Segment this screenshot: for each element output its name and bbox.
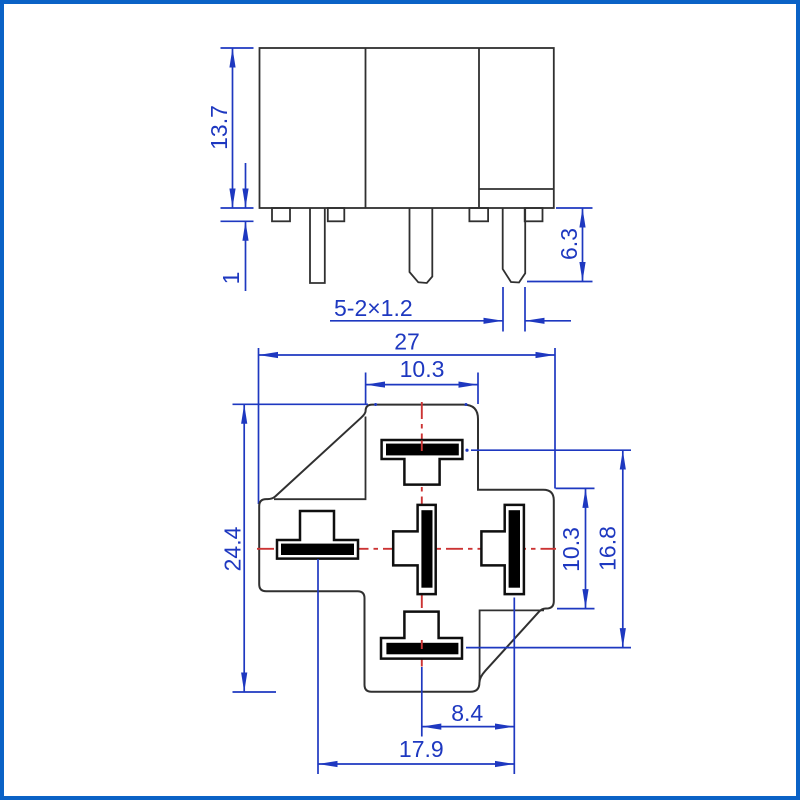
chamfer edge lines bottom-right	[480, 610, 544, 681]
dim 16.8 line	[622, 450, 624, 647]
dim 6.3 extension top	[556, 207, 593, 209]
mounting tab 4	[525, 208, 543, 221]
terminal blade bottom	[386, 643, 458, 655]
body divider line right	[478, 48, 480, 208]
terminal slots	[277, 440, 524, 659]
svg-text:10.3: 10.3	[558, 527, 584, 572]
svg-text:16.8: 16.8	[595, 526, 621, 571]
dim 1 extension bottom	[221, 220, 254, 222]
body step line	[479, 188, 554, 190]
dim 27 line	[259, 354, 556, 356]
dimension labels	[206, 105, 621, 762]
centerline vertical	[421, 402, 423, 667]
svg-text:6.3: 6.3	[556, 228, 582, 260]
dim 13.7 line	[232, 48, 234, 208]
centerline horizontal	[257, 548, 556, 550]
svg-text:13.7: 13.7	[206, 105, 232, 150]
dim 8.4 line	[422, 726, 515, 728]
dim 24.4 extension top	[233, 403, 369, 405]
centerline dash over bottom blade	[421, 640, 423, 649]
dim 24.4 extension bottom	[233, 691, 277, 693]
pin width extension left	[502, 287, 504, 332]
defpoint dot	[465, 449, 468, 452]
top view dimensions	[221, 48, 593, 504]
slot 87 (center) outline	[393, 505, 436, 594]
slot 85 (bottom) outline	[381, 612, 462, 659]
dim 10.3 top extension left	[365, 373, 367, 405]
dim 6.3 line	[582, 208, 584, 282]
svg-text:24.4: 24.4	[220, 526, 246, 571]
svg-text:1: 1	[218, 272, 244, 285]
slot 86 (left) outline	[277, 511, 358, 559]
dim 10.3 right extension bottom	[557, 608, 595, 610]
dim 10.3 top extension right	[477, 373, 479, 405]
dim 1 arrow upper	[245, 163, 247, 208]
dim 17.9 extension left	[317, 559, 319, 774]
chamfer edge lines top-left	[274, 417, 366, 500]
terminal blade right	[509, 510, 520, 588]
body divider line left	[365, 48, 367, 208]
dim 13.7/1 extension middle	[221, 207, 254, 209]
dim 24.4 line	[243, 404, 245, 692]
svg-text:5-2×1.2: 5-2×1.2	[334, 295, 413, 321]
centerline dash over top blade	[421, 441, 423, 452]
dim 10.3 right extension top	[556, 487, 595, 489]
dim 8.4 extension left	[421, 667, 423, 737]
body outline	[260, 48, 554, 208]
dim 13.7 extension top	[221, 47, 254, 49]
dim 27 extension right	[554, 348, 556, 489]
top view: relay socket body	[260, 48, 554, 283]
pin width extension right	[524, 287, 526, 332]
dim 5-2x1.2 leader left	[330, 320, 503, 322]
dim 27 extension left	[258, 348, 260, 504]
pin 1	[310, 208, 325, 283]
terminal blade top	[386, 444, 459, 456]
terminal blade center	[421, 510, 432, 588]
svg-text:27: 27	[394, 329, 420, 355]
socket outline	[259, 405, 554, 692]
dim 5-2x1.2 leader right	[525, 320, 571, 322]
mounting tab 3	[469, 208, 488, 221]
pin 3	[503, 208, 526, 283]
dim 16.8 extension top	[471, 449, 631, 451]
dim 6.3 extension bottom	[527, 281, 593, 283]
bottom view dimensions	[233, 403, 632, 774]
dim 10.3 top line	[366, 384, 478, 386]
svg-text:10.3: 10.3	[400, 356, 445, 382]
mounting tab 2	[328, 208, 345, 221]
dim 17.9 line	[318, 763, 514, 765]
terminal blade left	[281, 544, 354, 555]
mounting tab 1	[272, 208, 290, 221]
slot 87a (right) outline	[481, 505, 524, 594]
slot 30 (top) outline	[382, 440, 463, 485]
svg-text:8.4: 8.4	[451, 700, 483, 726]
svg-text:17.9: 17.9	[399, 736, 444, 762]
dim 8.4/17.9 extension right	[513, 598, 515, 775]
dim 10.3 right line	[585, 488, 587, 608]
pin 2	[410, 208, 433, 283]
dim 16.8 extension bottom	[466, 647, 631, 649]
dim 1 arrow lower	[245, 221, 247, 291]
